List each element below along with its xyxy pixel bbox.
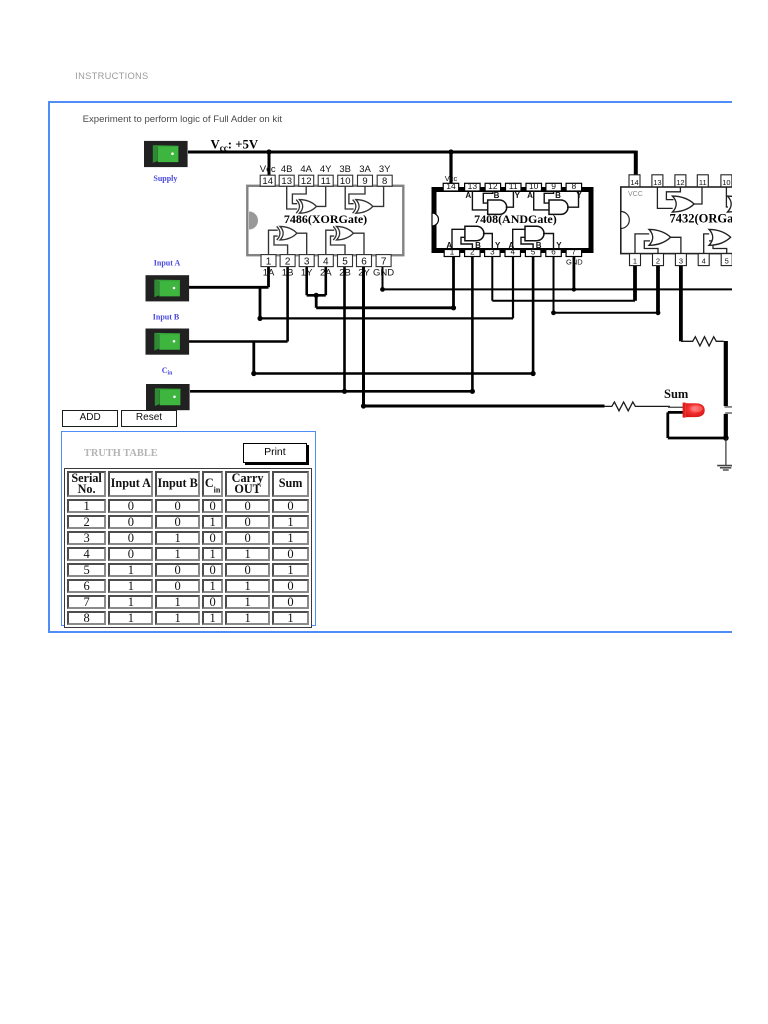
and-gate GB: [549, 200, 568, 214]
svg-text:12: 12: [676, 178, 684, 187]
wire OR1 output: [694, 187, 702, 204]
svg-text:12: 12: [301, 176, 312, 187]
wire Cin to 7486 pin5 and 7408 pin2: [190, 256, 472, 391]
svg-text:11: 11: [321, 176, 331, 187]
svg-text:14: 14: [446, 181, 456, 191]
wire AND-D output: [543, 234, 554, 250]
svg-text:9: 9: [362, 176, 367, 187]
svg-text:10: 10: [340, 176, 351, 187]
svg-text:Y: Y: [495, 241, 501, 250]
wire AND-D inputs: [513, 229, 533, 249]
wire 7486 1Y to 7408 pin1: [316, 256, 453, 308]
node junction Input A branch: [257, 316, 262, 321]
wire OR2 input (clipped): [726, 187, 728, 207]
carry LED plates (clipped): [725, 406, 734, 408]
svg-text:Input A: Input A: [154, 259, 181, 268]
node junction 7408 pin1 corner: [451, 305, 456, 310]
wire OR1 inputs: [657, 187, 680, 209]
svg-text:1Y: 1Y: [301, 268, 313, 279]
IC U1 top pins 14-8: [260, 175, 392, 187]
wire AND-A output: [506, 191, 514, 207]
svg-text:13: 13: [468, 181, 478, 191]
wire LED cathode loop: [668, 412, 726, 438]
wire OR4 inputs: [704, 234, 727, 254]
wire Input B to 7486 pin2: [189, 267, 288, 342]
svg-text:Y: Y: [515, 191, 521, 200]
IC U2 top pins 14-8: [443, 181, 581, 191]
svg-text:3: 3: [304, 257, 310, 268]
IC U1 bottom pin labels: [263, 268, 395, 279]
or-gate GO2 (clipped): [728, 196, 750, 212]
IC U1 notch: [249, 212, 258, 230]
wire 7432 pin2 drop: [656, 265, 660, 312]
svg-text:A: A: [509, 241, 515, 250]
IC U3 notch: [621, 212, 630, 229]
IC U2 bottom pins 1-7: [444, 248, 581, 257]
svg-text:Supply: Supply: [153, 174, 177, 183]
svg-text:3A: 3A: [359, 164, 371, 175]
node junction ground: [723, 435, 729, 441]
svg-text:2A: 2A: [320, 268, 332, 279]
svg-text:11: 11: [509, 181, 518, 191]
and-gate GA: [488, 200, 507, 214]
svg-text:4: 4: [702, 257, 706, 266]
wire AND-C output: [483, 234, 492, 250]
svg-text:4B: 4B: [281, 164, 293, 175]
svg-text:A: A: [465, 191, 471, 200]
and-gate GD: [525, 226, 544, 240]
node junction Vcc/7486: [266, 149, 271, 154]
svg-text:5: 5: [725, 257, 729, 266]
wire XOR2 inputs: [326, 230, 345, 254]
wire AND-A inputs: [472, 191, 493, 210]
svg-text:1B: 1B: [282, 268, 294, 279]
IC U1 body: [247, 186, 403, 255]
svg-text:7408(ANDGate): 7408(ANDGate): [474, 212, 557, 226]
op IC U2 7408 AND gate chip: [432, 174, 591, 267]
node junction GND 7486 pin7: [380, 287, 385, 292]
wire OR3 output: [670, 237, 681, 253]
svg-text:13: 13: [281, 176, 292, 187]
wire XOR4 output: [317, 186, 326, 206]
node junction 1Y/2A: [314, 293, 319, 298]
wire AND-B output: [567, 191, 579, 207]
wire ground lead: [725, 438, 727, 465]
svg-text:10: 10: [529, 181, 539, 191]
node junction Sum corner: [361, 403, 366, 408]
IC U1 top pin labels: [260, 164, 391, 175]
svg-text:1A: 1A: [263, 268, 275, 279]
ground: [717, 466, 733, 470]
op IC U1 7486 XOR gate chip: [247, 164, 403, 279]
node junction Vcc/7408: [448, 149, 453, 154]
switch Input B: [146, 329, 190, 355]
switch Cin: [146, 384, 190, 410]
wire XOR3 inputs: [345, 186, 365, 209]
svg-text:2Y: 2Y: [358, 268, 370, 279]
wire Input A to 7486 pin1: [189, 267, 269, 288]
svg-text:11: 11: [699, 178, 707, 187]
svg-text:7432(ORGate): 7432(ORGate): [670, 212, 733, 226]
and-gate GC: [465, 226, 484, 240]
svg-text:3B: 3B: [339, 164, 351, 175]
wire XOR4 inputs: [287, 186, 307, 209]
wire carry LED cathode vertical: [724, 414, 728, 438]
svg-text:1: 1: [633, 257, 637, 266]
wire Vcc rail +5V: [188, 151, 636, 154]
svg-text:2: 2: [285, 257, 291, 268]
wire 7408 pin6 to 7432 pin2: [554, 256, 659, 313]
svg-text:3: 3: [679, 257, 683, 266]
svg-text:7: 7: [572, 248, 577, 257]
wire GND rail: [383, 267, 734, 290]
svg-text:4A: 4A: [300, 164, 312, 175]
svg-text:Sum: Sum: [664, 387, 689, 401]
svg-text:6: 6: [361, 257, 367, 268]
wire 7432 pin1 drop: [633, 265, 637, 300]
svg-text:Vcc: +5V: Vcc: +5V: [211, 138, 259, 153]
or-gate GO3: [649, 229, 671, 245]
svg-text:B: B: [536, 241, 542, 250]
switch Input A: [146, 275, 190, 301]
svg-text:12: 12: [488, 181, 498, 191]
svg-text:14: 14: [630, 178, 638, 187]
svg-text:B: B: [494, 191, 500, 200]
IC U3 top pins 14-10: [629, 175, 732, 187]
wire XOR1 inputs: [269, 230, 288, 254]
node junction Input B / 7408 pin5: [531, 371, 536, 376]
wire Vcc drop to 7408 pin14: [449, 152, 452, 184]
wire LED anode lead: [668, 406, 684, 408]
IC U1 bottom pins 1-7: [261, 255, 391, 268]
svg-text:7: 7: [381, 257, 387, 268]
IC U2 top A B Y labels: [465, 191, 582, 200]
wire XOR2 output: [354, 233, 365, 254]
or-gate GO1: [673, 196, 695, 212]
svg-text:2B: 2B: [339, 268, 351, 279]
wire Carry: 7432 pin3 down to resistor: [679, 265, 683, 341]
IC U3 body: [621, 187, 746, 254]
svg-text:2: 2: [656, 257, 660, 266]
wire 7486 1Y to 2A link: [307, 267, 326, 296]
node junction 7432 pin2: [656, 310, 661, 315]
wire AND-B inputs: [534, 191, 554, 210]
wire Sum: 7486 pin6 2Y down and right: [364, 267, 605, 407]
switch Supply: [144, 141, 188, 167]
wire AND-C inputs: [452, 229, 472, 249]
xor-gate G2: [333, 226, 336, 240]
svg-text:8: 8: [382, 176, 387, 187]
IC U2 notch: [432, 213, 439, 226]
wire 7408 pin3 to 7432 pin1: [492, 256, 635, 301]
wire Input B to 7408 pin5: [254, 256, 533, 374]
svg-text:10: 10: [722, 178, 730, 187]
svg-text:Vcc: Vcc: [260, 164, 276, 175]
wire Vcc drop to 7486 pin14: [268, 152, 271, 176]
svg-text:4: 4: [323, 257, 329, 268]
svg-text:A: A: [527, 191, 533, 200]
wire Input A branch down: [259, 287, 262, 318]
svg-text:3Y: 3Y: [379, 164, 391, 175]
node junction 7408 pin6 corner: [551, 310, 556, 315]
svg-text:Input B: Input B: [153, 313, 180, 322]
IC U2 body: [434, 190, 591, 251]
wire Input B branch down: [252, 342, 255, 374]
wire OR3 inputs: [635, 234, 658, 254]
svg-text:4Y: 4Y: [320, 164, 332, 175]
svg-text:Y: Y: [556, 241, 562, 250]
svg-text:Y: Y: [576, 191, 582, 200]
wire Vcc drop to 7432 pin14: [634, 151, 638, 175]
xor-gate G4: [296, 200, 299, 214]
svg-text:GND: GND: [566, 258, 583, 267]
wire XOR3 output: [373, 186, 384, 206]
svg-text:13: 13: [653, 178, 661, 187]
svg-text:8: 8: [572, 181, 577, 191]
resistor R2 carry: [681, 337, 724, 346]
IC U3 bottom pins 1-5: [630, 254, 733, 266]
svg-text:GND: GND: [373, 268, 394, 279]
wire carry LED anode vertical: [724, 341, 728, 406]
node junction Cin / 7486 pin5: [342, 389, 347, 394]
node junction GND 7408 pin7: [572, 287, 576, 291]
svg-text:9: 9: [551, 181, 556, 191]
svg-text:14: 14: [262, 176, 273, 187]
svg-text:5: 5: [342, 257, 348, 268]
svg-text:1: 1: [266, 257, 272, 268]
svg-text:7486(XORGate): 7486(XORGate): [284, 212, 367, 226]
svg-text:VCC: VCC: [628, 191, 643, 198]
xor-gate G1: [277, 226, 280, 240]
xor-gate G3: [353, 200, 356, 214]
node junction Input B branch: [251, 371, 256, 376]
svg-text:B: B: [475, 241, 481, 250]
node junction Cin / 7408 pin2: [470, 389, 475, 394]
IC U2 bottom A B Y labels: [446, 241, 562, 250]
resistor R1 sum: [604, 402, 670, 411]
svg-text:B: B: [555, 191, 561, 200]
or-gate GO4 (clipped): [709, 229, 731, 245]
wire Input A to 7408 pin4: [260, 256, 513, 318]
wire XOR1 output: [297, 233, 307, 254]
op IC U3 7432 OR gate chip: [621, 175, 749, 266]
svg-text:Cin: Cin: [162, 366, 173, 377]
LED D1 Sum: [683, 403, 705, 418]
